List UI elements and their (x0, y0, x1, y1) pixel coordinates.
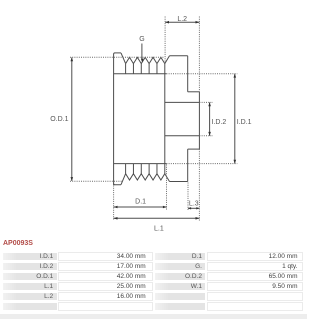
table row 1 right (155, 253, 205, 261)
hub step bottom (188, 148, 200, 150)
svg-text:I.D.2: I.D.2 (212, 119, 227, 126)
svg-text:G: G (139, 36, 144, 43)
hub step top (188, 91, 200, 93)
svg-text:L.1: L.1 (154, 225, 164, 232)
pulley left wall (114, 53, 115, 185)
table row 6 right (empty) (155, 303, 205, 311)
dimension O.D.1 (71, 57, 73, 181)
hub bore bottom edge (165, 135, 200, 137)
svg-text:I.D.1: I.D.1 (237, 119, 252, 126)
svg-text:D.1: D.1 (135, 198, 146, 205)
pulley top-left plateau (115, 52, 121, 54)
pulley groove zigzag top (126, 57, 165, 63)
D.1 L.1 left extension (113, 186, 115, 221)
pulley bottom-left plateau (114, 184, 121, 185)
pulley bottom chamfer (121, 174, 126, 185)
dimension L.3 (188, 207, 199, 209)
groove root line bottom (114, 163, 167, 165)
bottom strip (0, 314, 307, 319)
I.D.2 top extension (199, 101, 213, 103)
web right edge (164, 64, 166, 174)
I.D.1 top extension (166, 73, 237, 75)
D.1 right extension (166, 165, 168, 210)
L.2 L.3 L.1 right extension (198, 17, 200, 222)
dimension I.D.1 (234, 74, 236, 164)
pulley groove zigzag bottom (126, 174, 165, 180)
table row 3 right (155, 273, 205, 281)
table row 1 left (3, 253, 57, 261)
table row 2 left (3, 263, 57, 271)
L.2 left extension (164, 17, 166, 63)
hub nose face (198, 92, 200, 149)
groove stems top (126, 64, 157, 74)
groove root line top (114, 73, 167, 75)
pulley right plateau bottom (170, 181, 188, 183)
svg-text:L.2: L.2 (177, 16, 187, 23)
dimension D.1 (114, 206, 167, 208)
pulley bottom fall (165, 174, 170, 182)
O.D.1 bottom extension (70, 180, 122, 182)
part number title (3, 240, 33, 247)
O.D.1 top extension (70, 56, 164, 58)
pulley right plateau top (170, 55, 188, 57)
table row 4 right (155, 283, 205, 291)
svg-text:L.3: L.3 (189, 200, 199, 207)
dimension L.2 (165, 21, 199, 23)
table row 3 left (3, 273, 57, 281)
dimension I.D.2 (209, 102, 211, 135)
table row 6 left (empty) (3, 303, 57, 311)
L.3 left extension (187, 183, 189, 211)
leader G (141, 44, 143, 60)
groove stems bottom (126, 164, 157, 174)
table row 2 right (155, 263, 205, 271)
pulley right rise (165, 56, 170, 64)
svg-text:O.D.1: O.D.1 (50, 116, 68, 123)
table row 5 right (empty) (155, 293, 205, 301)
table row 5 left (3, 293, 57, 301)
I.D.2 bottom extension (199, 135, 213, 137)
pulley top chamfer (121, 53, 126, 64)
table row 4 left (3, 283, 57, 291)
pulley right wall upper (187, 56, 189, 92)
dimension L.1 (114, 217, 200, 219)
pulley right wall lower (187, 149, 189, 181)
I.D.1 bottom extension (166, 163, 237, 165)
hub bore top edge (165, 101, 200, 103)
